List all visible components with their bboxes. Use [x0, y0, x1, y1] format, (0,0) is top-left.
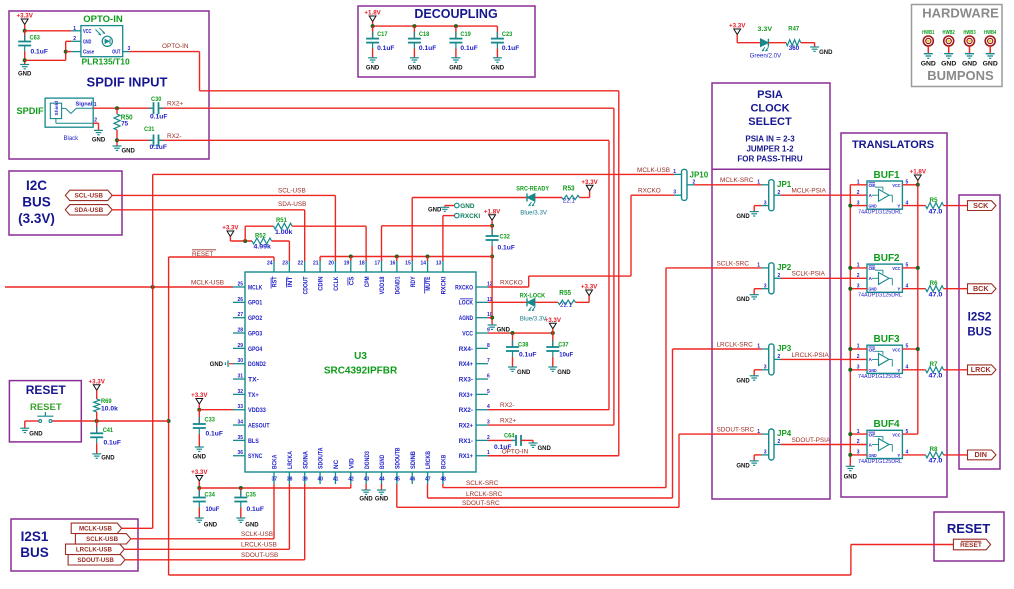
svg-text:C63: C63 [30, 35, 41, 42]
svg-text:1: 1 [757, 344, 760, 350]
svg-text:+1.8V: +1.8V [910, 169, 927, 176]
svg-text:10uF: 10uF [559, 352, 573, 359]
svg-text:44: 44 [379, 477, 385, 483]
svg-text:+3.3V: +3.3V [191, 469, 208, 476]
svg-text:Green/2.0V: Green/2.0V [750, 53, 783, 60]
svg-text:SDOUTB: SDOUTB [394, 447, 401, 469]
svg-text:R52: R52 [255, 233, 266, 240]
svg-text:R5: R5 [930, 197, 939, 204]
svg-text:GND: GND [844, 474, 858, 480]
svg-text:+3.3V: +3.3V [729, 23, 746, 30]
svg-text:C18: C18 [419, 31, 430, 38]
svg-text:2: 2 [778, 439, 781, 445]
svg-text:1: 1 [857, 180, 860, 186]
svg-text:RXCKO: RXCKO [500, 279, 523, 286]
svg-text:32: 32 [237, 389, 243, 395]
svg-text:GND: GND [193, 455, 207, 461]
svg-text:OPTO-IN: OPTO-IN [162, 43, 189, 50]
svg-text:SRC-READY: SRC-READY [516, 185, 549, 192]
svg-text:1: 1 [857, 429, 860, 435]
svg-text:0.1uF: 0.1uF [104, 440, 122, 447]
svg-text:+3.3V: +3.3V [581, 179, 598, 186]
svg-text:RX4+: RX4+ [459, 361, 474, 368]
svg-text:BUF4: BUF4 [874, 419, 901, 430]
svg-text:3.3V: 3.3V [758, 26, 773, 33]
svg-text:31: 31 [237, 374, 243, 380]
svg-text:BCKB: BCKB [441, 454, 448, 469]
svg-text:Blue/3.3V: Blue/3.3V [520, 315, 548, 322]
svg-text:29: 29 [237, 343, 243, 349]
svg-text:CCLK: CCLK [333, 276, 340, 291]
svg-text:5: 5 [906, 344, 909, 350]
svg-text:PSIA IN = 2-3: PSIA IN = 2-3 [745, 135, 795, 144]
svg-text:C34: C34 [205, 491, 216, 498]
svg-text:0.1uF: 0.1uF [460, 45, 478, 52]
svg-text:R8: R8 [930, 446, 939, 453]
svg-text:R69: R69 [101, 398, 112, 405]
svg-text:C32: C32 [500, 234, 511, 241]
svg-text:GND: GND [122, 149, 136, 155]
svg-text:BUS: BUS [967, 327, 992, 339]
svg-text:2: 2 [778, 190, 781, 196]
svg-text:CS: CS [348, 276, 355, 286]
svg-text:VID: VID [348, 458, 355, 469]
svg-text:JP4: JP4 [777, 429, 792, 438]
svg-text:4.99k: 4.99k [254, 243, 272, 250]
svg-text:0.1uF: 0.1uF [247, 506, 265, 513]
svg-text:LOCK: LOCK [459, 300, 474, 307]
svg-text:0.1uF: 0.1uF [498, 245, 516, 252]
svg-text:R47: R47 [788, 26, 799, 33]
svg-text:A: A [869, 442, 873, 448]
svg-text:SDOUT-USB: SDOUT-USB [77, 557, 114, 564]
svg-text:SDINB: SDINB [410, 451, 417, 469]
svg-text:U3: U3 [354, 351, 367, 362]
svg-text:+3.3V: +3.3V [222, 225, 239, 232]
svg-text:LRCKB: LRCKB [425, 451, 432, 469]
svg-text:43: 43 [364, 477, 370, 483]
svg-text:OUT: OUT [112, 50, 120, 56]
svg-text:13: 13 [436, 261, 442, 267]
svg-text:16: 16 [390, 261, 396, 267]
svg-text:2: 2 [857, 439, 860, 445]
svg-text:JP10: JP10 [690, 171, 709, 180]
svg-text:36: 36 [237, 450, 243, 456]
svg-text:1: 1 [757, 180, 760, 186]
svg-text:SDINA: SDINA [302, 451, 309, 469]
svg-text:22: 22 [298, 261, 304, 267]
svg-text:C31: C31 [144, 126, 155, 133]
svg-text:GPO2: GPO2 [248, 315, 263, 322]
svg-text:47.0: 47.0 [929, 458, 944, 465]
svg-text:C41: C41 [103, 427, 114, 434]
svg-text:SCK: SCK [973, 201, 989, 210]
svg-text:AGND: AGND [459, 315, 474, 322]
svg-text:RXCKO: RXCKO [638, 188, 661, 195]
svg-text:MCLK-PSIA: MCLK-PSIA [792, 188, 827, 195]
svg-text:360: 360 [789, 45, 800, 52]
svg-text:BCK: BCK [973, 284, 989, 293]
svg-text:HWB2: HWB2 [943, 30, 955, 36]
svg-text:2: 2 [778, 354, 781, 360]
svg-text:1: 1 [757, 263, 760, 269]
svg-text:SDOUTA: SDOUTA [318, 447, 325, 469]
svg-text:GPO4: GPO4 [248, 346, 263, 353]
svg-text:VCC: VCC [83, 29, 92, 35]
svg-text:47.0: 47.0 [929, 373, 944, 380]
svg-text:SPDIF INPUT: SPDIF INPUT [87, 75, 168, 90]
svg-text:RX2+: RX2+ [167, 101, 183, 108]
svg-text:3: 3 [764, 365, 767, 371]
svg-text:74AUP1G125DRL: 74AUP1G125DRL [858, 374, 902, 380]
svg-text:RX2+: RX2+ [500, 417, 516, 424]
svg-text:GND: GND [210, 362, 224, 368]
svg-text:0.1uF: 0.1uF [502, 45, 520, 52]
svg-text:+3.3V: +3.3V [17, 13, 34, 20]
svg-text:37: 37 [271, 477, 277, 483]
svg-text:R6: R6 [930, 280, 939, 287]
svg-text:C38: C38 [518, 341, 529, 348]
svg-text:18: 18 [359, 261, 365, 267]
svg-text:OPTO-IN: OPTO-IN [502, 448, 529, 455]
svg-text:33: 33 [237, 404, 243, 410]
svg-text:GND: GND [736, 463, 750, 469]
svg-text:38: 38 [287, 477, 293, 483]
svg-text:C17: C17 [377, 31, 388, 38]
svg-text:Case: Case [83, 50, 94, 56]
svg-text:GND: GND [375, 496, 389, 502]
svg-text:0.1uF: 0.1uF [206, 431, 224, 438]
svg-text:VCC: VCC [892, 347, 901, 353]
svg-text:BUF1: BUF1 [874, 170, 901, 181]
svg-text:RDY: RDY [410, 276, 417, 287]
svg-text:C64: C64 [504, 433, 515, 440]
svg-text:SDOUT-PSIA: SDOUT-PSIA [792, 437, 831, 444]
svg-text:SRC4392IPFBR: SRC4392IPFBR [324, 366, 398, 377]
svg-text:BUMPONS: BUMPONS [927, 68, 994, 83]
svg-text:PSIA: PSIA [757, 89, 783, 101]
svg-text:DECOUPLING: DECOUPLING [414, 7, 497, 21]
svg-text:RESET: RESET [30, 402, 62, 413]
svg-text:DGND2: DGND2 [248, 361, 266, 368]
svg-text:30: 30 [237, 358, 243, 364]
svg-text:5: 5 [906, 263, 909, 269]
svg-text:R55: R55 [559, 290, 571, 297]
svg-text:10.0k: 10.0k [101, 407, 119, 413]
svg-text:SDOUT-USB: SDOUT-USB [241, 552, 278, 559]
svg-text:RXCKO: RXCKO [455, 284, 473, 291]
svg-text:41: 41 [333, 477, 339, 483]
svg-text:RX4-: RX4- [459, 346, 473, 353]
svg-text:3: 3 [857, 365, 860, 371]
svg-text:4: 4 [906, 200, 909, 206]
svg-text:I2S1: I2S1 [21, 529, 49, 544]
svg-text:SCL-USB: SCL-USB [75, 193, 104, 200]
svg-text:SCLK-USB: SCLK-USB [86, 536, 118, 543]
svg-text:FOR PASS-THRU: FOR PASS-THRU [737, 155, 802, 164]
svg-text:DGND3: DGND3 [364, 451, 371, 469]
svg-text:3: 3 [857, 200, 860, 206]
svg-text:GND: GND [428, 208, 442, 214]
svg-text:GND: GND [983, 61, 998, 68]
svg-text:47.0: 47.0 [929, 292, 944, 299]
svg-text:OE: OE [869, 183, 877, 189]
svg-text:A: A [869, 357, 873, 363]
svg-text:GND: GND [92, 137, 106, 143]
svg-text:C30: C30 [151, 96, 162, 103]
svg-text:SDA-USB: SDA-USB [278, 201, 306, 208]
svg-text:3: 3 [764, 200, 767, 206]
svg-text:VCC: VCC [892, 432, 901, 438]
svg-text:GND: GND [245, 523, 259, 529]
svg-text:GND: GND [204, 523, 218, 529]
svg-text:SDOUT-SRC: SDOUT-SRC [462, 500, 500, 507]
svg-text:MCLK-USB: MCLK-USB [637, 167, 670, 174]
svg-text:RXCKI: RXCKI [441, 276, 448, 294]
svg-text:MUTE: MUTE [425, 276, 432, 291]
svg-text:GPO1: GPO1 [248, 300, 263, 307]
svg-text:2: 2 [73, 36, 76, 42]
svg-text:R7: R7 [930, 361, 939, 368]
svg-text:RX-LOCK: RX-LOCK [520, 293, 546, 300]
svg-text:I2S2: I2S2 [968, 312, 992, 324]
svg-text:5: 5 [906, 180, 909, 186]
svg-text:5: 5 [487, 389, 490, 395]
svg-text:1.00k: 1.00k [275, 229, 293, 236]
svg-text:1: 1 [857, 344, 860, 350]
svg-text:0.1uF: 0.1uF [419, 45, 437, 52]
svg-text:3: 3 [764, 283, 767, 289]
svg-text:RX3+: RX3+ [459, 392, 474, 399]
svg-text:LRCKA: LRCKA [287, 451, 294, 469]
svg-text:1: 1 [73, 26, 76, 32]
svg-text:C23: C23 [502, 31, 513, 38]
svg-text:MCLK-SRC: MCLK-SRC [720, 177, 754, 184]
svg-text:GND: GND [736, 378, 750, 384]
svg-text:GND: GND [819, 50, 833, 56]
svg-text:0.1uF: 0.1uF [31, 49, 49, 56]
svg-text:GND: GND [359, 496, 373, 502]
svg-text:JP3: JP3 [777, 344, 792, 353]
svg-text:HWB1: HWB1 [922, 30, 934, 36]
svg-text:SCLK-USB: SCLK-USB [241, 531, 273, 538]
svg-text:47.0: 47.0 [929, 208, 944, 215]
svg-text:LRCLK-SRC: LRCLK-SRC [466, 491, 503, 498]
svg-text:LRCK: LRCK [971, 365, 992, 374]
svg-text:GND: GND [736, 214, 750, 220]
svg-text:SPDIF: SPDIF [17, 106, 44, 116]
svg-text:22.1: 22.1 [560, 302, 573, 309]
svg-text:Blue/3.3V: Blue/3.3V [520, 210, 548, 217]
svg-text:LRCLK-USB: LRCLK-USB [76, 547, 113, 554]
svg-text:2: 2 [857, 190, 860, 196]
svg-text:GND: GND [18, 72, 32, 78]
svg-text:47: 47 [425, 477, 431, 483]
svg-text:JUMPER 1-2: JUMPER 1-2 [746, 145, 794, 154]
svg-text:MCLK-USB: MCLK-USB [79, 526, 113, 533]
svg-text:RX2-: RX2- [500, 402, 515, 409]
svg-text:GND: GND [101, 455, 115, 461]
svg-text:48: 48 [440, 477, 446, 483]
svg-text:28: 28 [237, 328, 243, 334]
svg-text:75: 75 [121, 121, 128, 128]
svg-text:CDOUT: CDOUT [302, 276, 309, 294]
svg-text:GND: GND [366, 65, 380, 71]
svg-text:TRANSLATORS: TRANSLATORS [852, 139, 934, 151]
svg-text:NC: NC [333, 459, 340, 469]
svg-text:RST: RST [272, 276, 279, 287]
svg-text:HWB4: HWB4 [984, 30, 997, 36]
svg-text:VDD18: VDD18 [379, 276, 386, 294]
svg-text:LRCLK-SRC: LRCLK-SRC [717, 341, 754, 348]
svg-text:PLR135/T10: PLR135/T10 [82, 56, 130, 66]
svg-text:+3.3V: +3.3V [191, 392, 208, 399]
svg-text:RESET: RESET [26, 383, 67, 397]
svg-text:SCLK-SRC: SCLK-SRC [466, 480, 499, 487]
svg-text:42: 42 [348, 477, 354, 483]
svg-text:GND: GND [962, 61, 977, 68]
svg-text:46: 46 [410, 477, 416, 483]
svg-text:LRCLK-USB: LRCLK-USB [241, 542, 277, 549]
svg-text:VDD33: VDD33 [248, 407, 266, 414]
svg-text:SDA-USB: SDA-USB [74, 207, 103, 214]
svg-text:RESET: RESET [947, 521, 990, 536]
svg-text:I2C: I2C [26, 178, 47, 193]
svg-text:C19: C19 [460, 31, 471, 38]
svg-text:DIN: DIN [975, 450, 987, 459]
svg-text:CPM: CPM [364, 277, 371, 288]
svg-text:34: 34 [237, 420, 243, 426]
svg-text:0.1uF: 0.1uF [377, 45, 395, 52]
svg-text:OE: OE [869, 347, 877, 353]
svg-text:RX2+: RX2+ [459, 422, 474, 429]
svg-text:(3.3V): (3.3V) [18, 211, 55, 226]
svg-text:3: 3 [764, 450, 767, 456]
svg-text:+3.3V: +3.3V [89, 378, 106, 385]
svg-text:3: 3 [857, 283, 860, 289]
svg-text:TX-: TX- [248, 376, 259, 383]
svg-text:45: 45 [394, 477, 400, 483]
svg-text:BUF2: BUF2 [874, 253, 901, 264]
svg-text:DGND1: DGND1 [394, 276, 401, 294]
svg-text:SELECT: SELECT [748, 116, 792, 128]
svg-text:74AUP1G125DRL: 74AUP1G125DRL [858, 293, 902, 299]
svg-text:3: 3 [857, 450, 860, 456]
svg-text:74AUP1G125DRL: 74AUP1G125DRL [858, 459, 902, 465]
svg-text:OPTO-IN: OPTO-IN [83, 14, 123, 25]
svg-text:SCLK-PSIA: SCLK-PSIA [792, 271, 826, 278]
svg-text:SCL-USB: SCL-USB [278, 188, 306, 195]
svg-text:BCKA: BCKA [272, 454, 279, 469]
svg-text:RX3-: RX3- [459, 376, 473, 383]
svg-text:1: 1 [857, 263, 860, 269]
svg-text:0.1uF: 0.1uF [519, 352, 537, 359]
svg-text:74AUP1G125DRL: 74AUP1G125DRL [858, 210, 902, 216]
svg-text:RX2-: RX2- [167, 133, 182, 140]
svg-text:SCLK-SRC: SCLK-SRC [717, 260, 750, 267]
svg-text:BUF3: BUF3 [874, 334, 901, 345]
svg-text:R53: R53 [563, 185, 575, 192]
svg-text:VCC: VCC [892, 266, 901, 272]
svg-text:BUS: BUS [20, 545, 49, 560]
svg-text:4: 4 [906, 450, 909, 456]
svg-text:BUS: BUS [22, 195, 51, 210]
svg-text:C35: C35 [246, 491, 257, 498]
svg-text:RESET: RESET [960, 542, 982, 549]
svg-text:0.1uF: 0.1uF [150, 144, 168, 151]
svg-text:8: 8 [487, 343, 490, 349]
svg-text:35: 35 [237, 435, 243, 441]
svg-text:INT: INT [287, 276, 294, 287]
svg-text:HWB3: HWB3 [963, 30, 975, 36]
svg-text:AESOUT: AESOUT [248, 422, 270, 429]
svg-text:2: 2 [857, 273, 860, 279]
svg-text:TX+: TX+ [248, 392, 259, 399]
svg-text:GND: GND [449, 65, 463, 71]
svg-text:15: 15 [405, 261, 411, 267]
svg-text:+3.3V: +3.3V [545, 317, 562, 324]
svg-text:Shield: Shield [54, 101, 59, 116]
svg-text:26: 26 [237, 297, 243, 303]
svg-text:GND: GND [538, 446, 552, 452]
svg-text:LRCLK-PSIA: LRCLK-PSIA [792, 352, 830, 359]
svg-text:5: 5 [906, 429, 909, 435]
svg-text:+1.8V: +1.8V [484, 208, 501, 215]
svg-text:VCC: VCC [892, 183, 901, 189]
svg-text:A: A [869, 276, 873, 282]
svg-text:GND: GND [941, 61, 956, 68]
svg-text:HARDWARE: HARDWARE [922, 6, 999, 21]
svg-text:14: 14 [421, 261, 427, 267]
svg-text:RX1+: RX1+ [459, 453, 474, 460]
svg-text:10uF: 10uF [206, 506, 220, 513]
svg-text:OE: OE [869, 266, 877, 272]
svg-text:4: 4 [906, 365, 909, 371]
svg-text:4: 4 [906, 283, 909, 289]
svg-text:20: 20 [328, 261, 334, 267]
svg-text:MCLK: MCLK [248, 284, 263, 291]
svg-text:JP2: JP2 [777, 263, 792, 272]
svg-text:19: 19 [344, 261, 350, 267]
svg-text:39: 39 [302, 477, 308, 483]
svg-text:GND: GND [557, 370, 571, 376]
svg-text:27: 27 [237, 312, 243, 318]
svg-text:1: 1 [757, 429, 760, 435]
svg-text:21: 21 [313, 261, 319, 267]
svg-text:GND: GND [83, 39, 92, 45]
svg-text:MCLK-USB: MCLK-USB [191, 279, 224, 286]
svg-text:0.1uF: 0.1uF [150, 114, 168, 121]
svg-text:Black: Black [64, 136, 80, 142]
svg-text:1: 1 [94, 102, 97, 108]
svg-text:40: 40 [318, 477, 324, 483]
svg-text:17: 17 [374, 261, 380, 267]
svg-text:BGND: BGND [379, 454, 386, 469]
svg-text:R51: R51 [276, 217, 287, 224]
svg-text:2: 2 [857, 354, 860, 360]
svg-text:JP1: JP1 [777, 180, 792, 189]
svg-text:SDOUT-SRC: SDOUT-SRC [717, 427, 755, 434]
svg-text:RX1-: RX1- [459, 438, 473, 445]
svg-text:RX2-: RX2- [459, 407, 473, 414]
svg-text:Signal: Signal [76, 102, 93, 108]
svg-text:SYNC: SYNC [248, 453, 263, 460]
svg-text:RXCKI: RXCKI [460, 213, 480, 220]
svg-text:BLS: BLS [248, 438, 259, 445]
svg-text:C33: C33 [205, 417, 216, 424]
svg-text:GND: GND [517, 370, 531, 376]
svg-text:GND: GND [491, 65, 505, 71]
